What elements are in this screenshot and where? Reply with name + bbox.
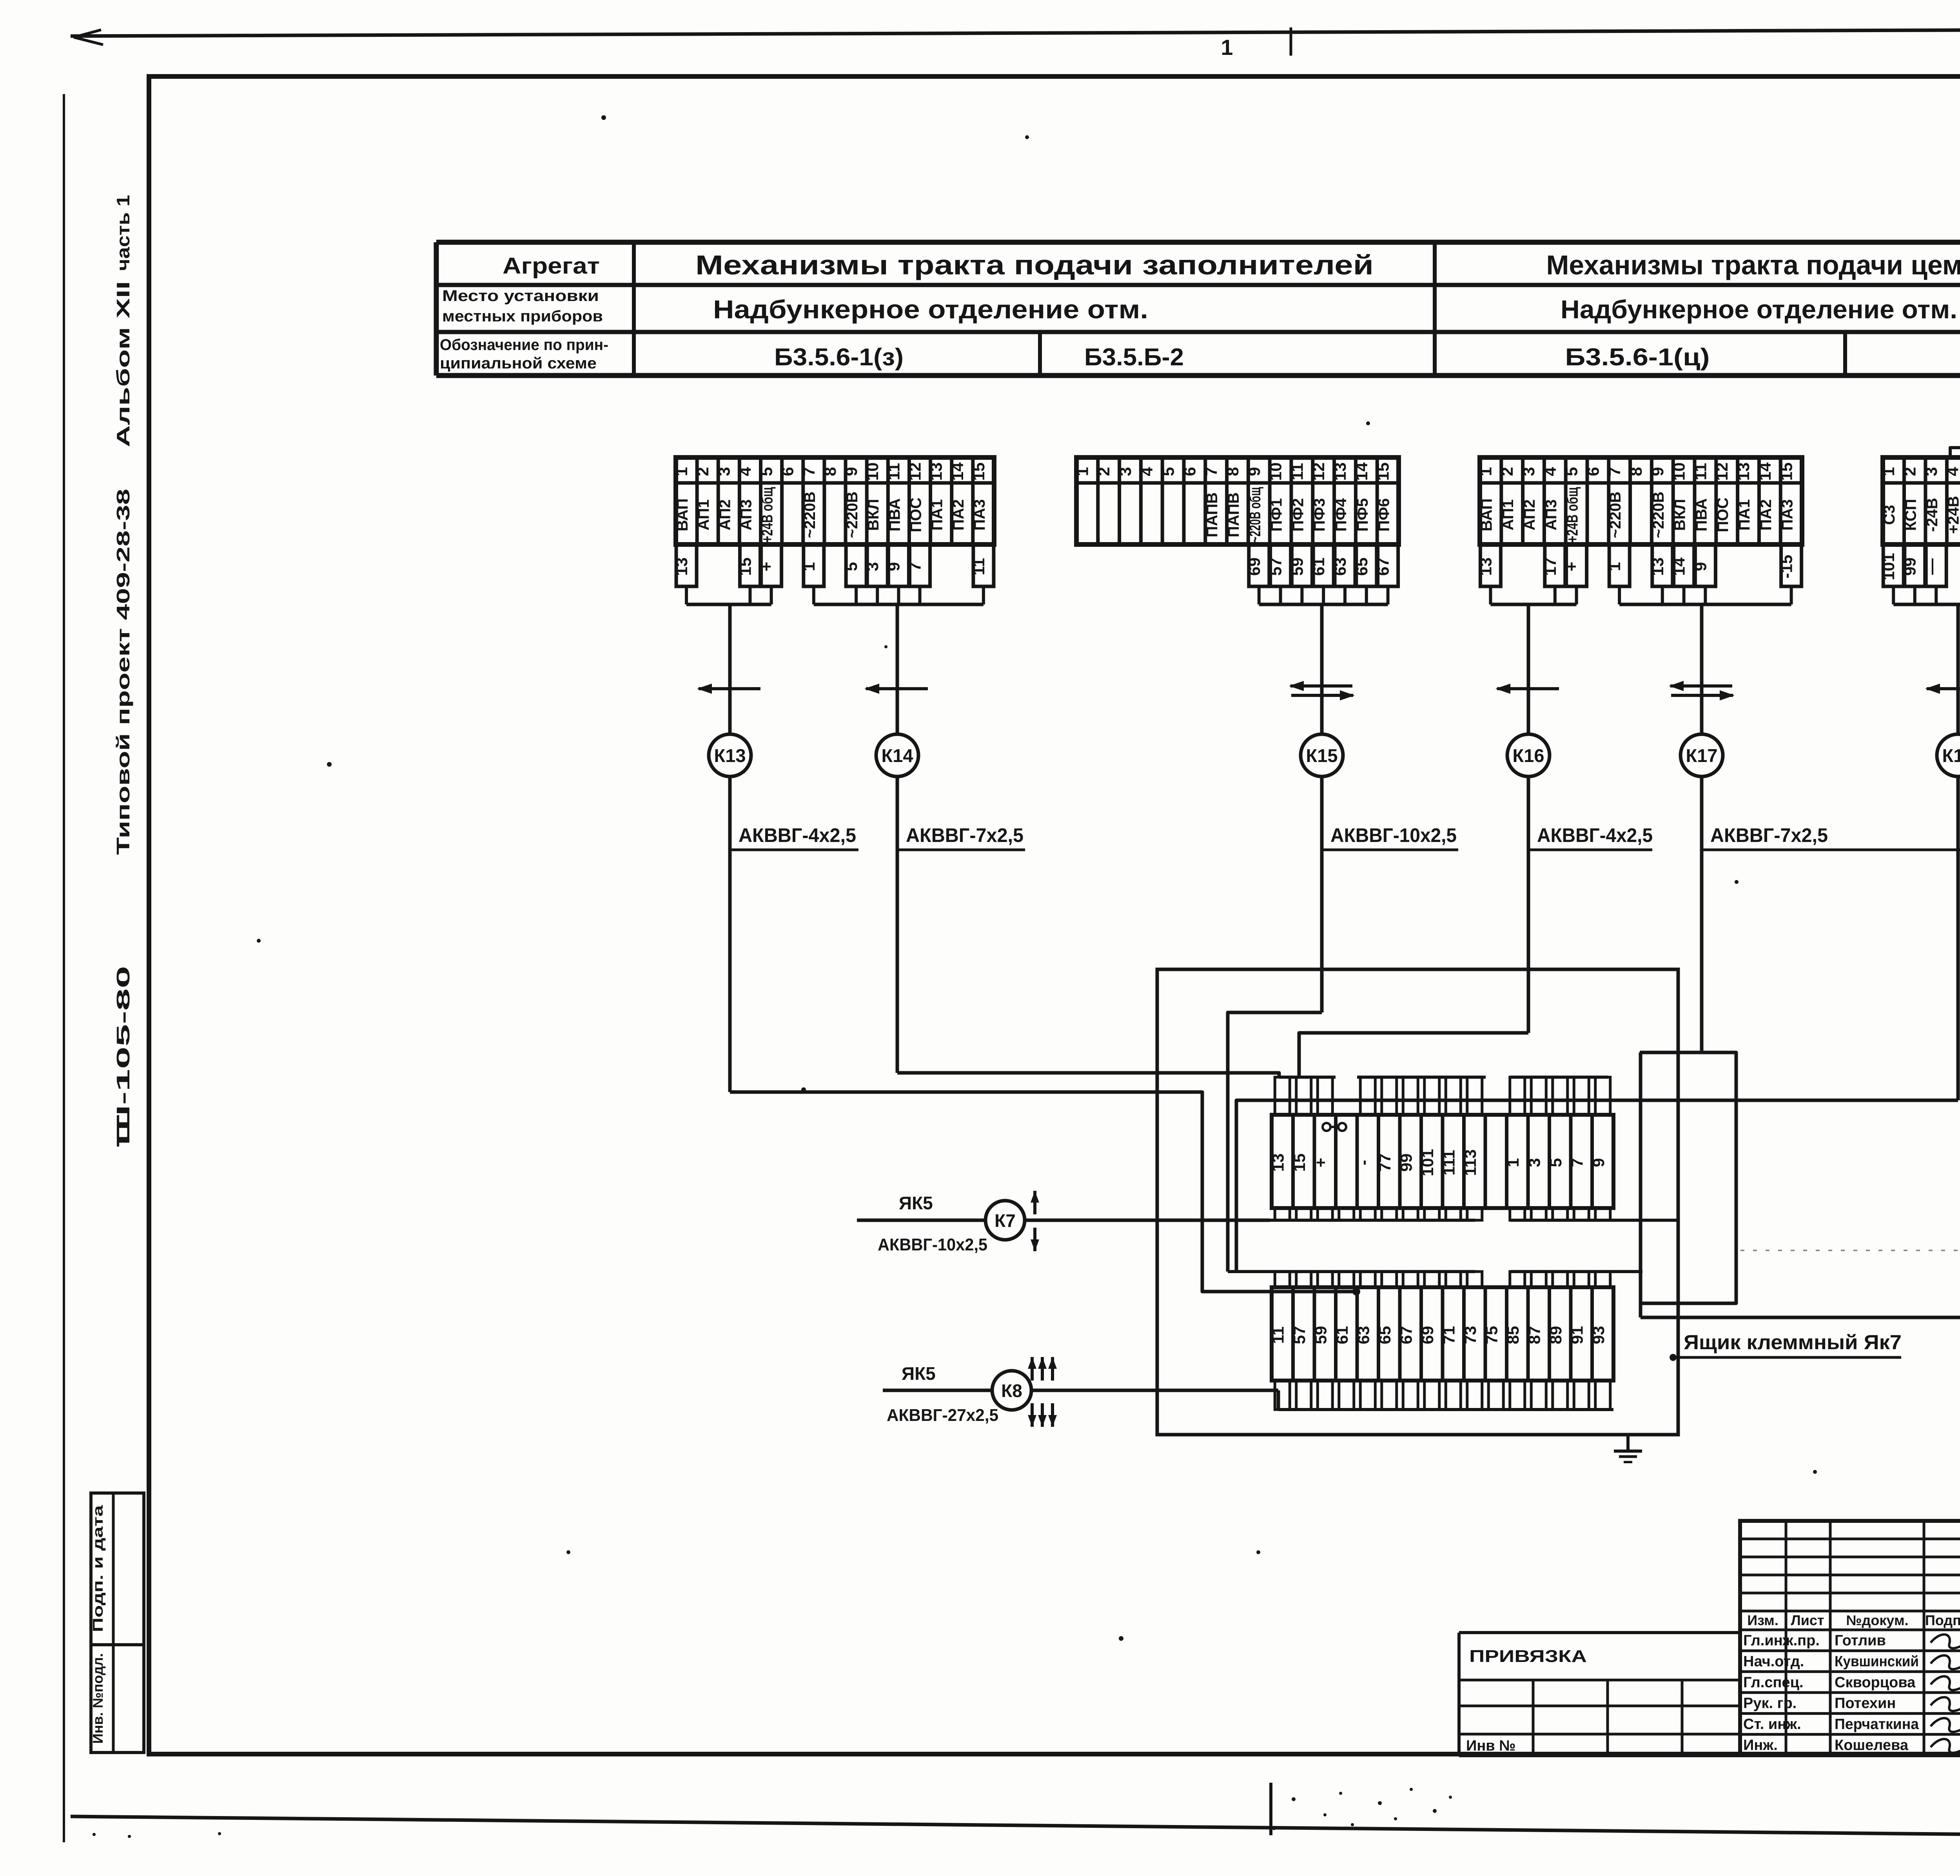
svg-text:Альбом XII: Альбом XII xyxy=(113,281,133,447)
svg-text:К13: К13 xyxy=(714,745,746,766)
svg-text:Перчаткина: Перчаткина xyxy=(1835,1716,1919,1733)
svg-text:+24В общ: +24В общ xyxy=(759,487,776,542)
svg-text:1: 1 xyxy=(1073,467,1091,476)
svg-text:ВКЛ: ВКЛ xyxy=(865,499,882,531)
svg-text:Ящик клеммный Як7: Ящик клеммный Як7 xyxy=(1684,1331,1902,1354)
svg-text:Б3.5.6-1(з): Б3.5.6-1(з) xyxy=(774,344,904,371)
svg-text:К17: К17 xyxy=(1686,745,1718,766)
svg-text:5: 5 xyxy=(1159,467,1178,476)
svg-text:93: 93 xyxy=(1589,1326,1608,1344)
svg-text:12: 12 xyxy=(1309,463,1328,481)
svg-text:~220В: ~220В xyxy=(801,492,818,538)
svg-text:АКВВГ-27х2,5: АКВВГ-27х2,5 xyxy=(887,1406,998,1425)
svg-text:14: 14 xyxy=(948,462,967,481)
svg-text:73: 73 xyxy=(1461,1326,1479,1344)
svg-text:101: 101 xyxy=(1418,1149,1437,1176)
svg-text:59: 59 xyxy=(1288,557,1306,576)
svg-text:АП2: АП2 xyxy=(1521,499,1538,530)
svg-text:Рук. гр.: Рук. гр. xyxy=(1743,1695,1797,1712)
svg-text:ПА2: ПА2 xyxy=(950,499,967,531)
svg-text:Механизмы тракта подачи цемент: Механизмы тракта подачи цемента xyxy=(1546,250,1960,280)
svg-text:Б3.5.Б-2: Б3.5.Б-2 xyxy=(1084,344,1184,371)
svg-text:11: 11 xyxy=(884,463,903,480)
svg-text:Типовой проект 409-28-38: Типовой проект 409-28-38 xyxy=(113,489,133,855)
svg-text:АКВВГ-10х2,5: АКВВГ-10х2,5 xyxy=(878,1235,987,1254)
svg-text:3: 3 xyxy=(1519,467,1538,476)
svg-text:Надбункерное отделение отм.: Надбункерное отделение отм. xyxy=(713,295,1148,324)
svg-text:15: 15 xyxy=(969,463,988,481)
svg-text:местных приборов: местных приборов xyxy=(442,308,603,325)
svg-text:1: 1 xyxy=(1221,35,1233,60)
svg-text:ПОС: ПОС xyxy=(1714,497,1731,532)
svg-text:3: 3 xyxy=(1116,467,1134,476)
svg-text:~220В: ~220В xyxy=(1607,492,1624,538)
svg-text:3: 3 xyxy=(1922,467,1940,476)
svg-text:+: + xyxy=(1311,1158,1330,1168)
svg-text:АКВВГ-10х2,5: АКВВГ-10х2,5 xyxy=(1330,824,1457,846)
svg-text:ПОС: ПОС xyxy=(907,497,924,532)
svg-text:АП2: АП2 xyxy=(716,499,733,530)
svg-text:1: 1 xyxy=(1605,562,1624,571)
svg-text:85: 85 xyxy=(1504,1326,1522,1344)
svg-text:2: 2 xyxy=(693,467,712,476)
svg-text:59: 59 xyxy=(1311,1326,1330,1344)
svg-text:111: 111 xyxy=(1439,1150,1458,1175)
svg-text:Б3.5.6-1(ц): Б3.5.6-1(ц) xyxy=(1565,344,1710,371)
svg-text:10: 10 xyxy=(1670,463,1688,481)
svg-text:63: 63 xyxy=(1354,1326,1372,1344)
svg-text:Потехин: Потехин xyxy=(1835,1695,1896,1712)
svg-text:Обозначение по прин-: Обозначение по прин- xyxy=(440,336,608,354)
svg-text:87: 87 xyxy=(1525,1326,1543,1344)
svg-text:6: 6 xyxy=(779,467,797,476)
svg-text:АКВВГ-4х2,5: АКВВГ-4х2,5 xyxy=(739,824,856,846)
svg-text:ПВА: ПВА xyxy=(886,498,903,532)
svg-text:89: 89 xyxy=(1546,1326,1565,1344)
svg-text:~220В: ~220В xyxy=(1650,492,1667,538)
svg-text:12: 12 xyxy=(1713,463,1731,481)
svg-text:11: 11 xyxy=(969,558,988,575)
svg-text:ПФ6: ПФ6 xyxy=(1376,498,1393,532)
svg-text:14: 14 xyxy=(1670,557,1688,576)
svg-text:К14: К14 xyxy=(882,745,913,766)
svg-text:-: - xyxy=(1354,1160,1372,1165)
svg-text:71: 71 xyxy=(1439,1326,1458,1344)
svg-text:ЯК5: ЯК5 xyxy=(899,1193,933,1213)
svg-text:5: 5 xyxy=(842,562,860,571)
svg-text:~220В: ~220В xyxy=(844,492,861,538)
svg-text:15: 15 xyxy=(736,557,754,576)
svg-text:113: 113 xyxy=(1461,1149,1479,1176)
svg-text:99: 99 xyxy=(1901,557,1919,576)
svg-text:1: 1 xyxy=(672,467,691,476)
svg-text:-24В: -24В xyxy=(1924,498,1941,532)
svg-text:+: + xyxy=(1563,562,1581,572)
svg-text:10: 10 xyxy=(863,463,882,481)
svg-text:11: 11 xyxy=(1691,463,1710,480)
svg-text:13: 13 xyxy=(1331,463,1349,481)
svg-text:ПАПВ: ПАПВ xyxy=(1203,492,1221,537)
svg-text:ПФ5: ПФ5 xyxy=(1354,498,1371,532)
svg-text:2: 2 xyxy=(1498,467,1516,476)
svg-text:15: 15 xyxy=(1374,463,1392,481)
svg-text:1: 1 xyxy=(1504,1158,1522,1167)
svg-text:17: 17 xyxy=(1541,557,1559,576)
svg-text:ПРИВЯЗКА: ПРИВЯЗКА xyxy=(1469,1647,1587,1666)
svg-text:77: 77 xyxy=(1376,1154,1394,1172)
svg-text:АКВВГ-4х2,5: АКВВГ-4х2,5 xyxy=(1537,824,1653,846)
svg-text:~220В общ: ~220В общ xyxy=(1247,487,1264,542)
svg-text:13: 13 xyxy=(1269,1154,1287,1172)
svg-text:Изм.: Изм. xyxy=(1747,1612,1779,1628)
svg-text:57: 57 xyxy=(1267,557,1285,576)
svg-text:7: 7 xyxy=(1568,1158,1586,1167)
svg-text:75: 75 xyxy=(1482,1326,1501,1344)
svg-text:3: 3 xyxy=(1525,1158,1543,1167)
svg-text:ПАПВ: ПАПВ xyxy=(1225,492,1242,537)
svg-text:ПА3: ПА3 xyxy=(971,499,988,531)
svg-text:ПВА: ПВА xyxy=(1693,498,1710,532)
svg-text:2: 2 xyxy=(1901,467,1919,476)
svg-text:АП1: АП1 xyxy=(1499,499,1517,530)
svg-text:АКВВГ-7х2,5: АКВВГ-7х2,5 xyxy=(1710,824,1828,846)
svg-text:14: 14 xyxy=(1352,462,1371,481)
svg-text:57: 57 xyxy=(1290,1326,1308,1344)
svg-text:ПА1: ПА1 xyxy=(929,499,946,531)
svg-text:15: 15 xyxy=(1777,463,1796,481)
svg-text:7: 7 xyxy=(1605,467,1624,476)
svg-text:13: 13 xyxy=(1734,463,1753,481)
svg-text:ВКЛ: ВКЛ xyxy=(1671,499,1689,531)
svg-text:Инв №: Инв № xyxy=(1466,1738,1516,1754)
svg-text:9: 9 xyxy=(842,467,860,476)
svg-text:4: 4 xyxy=(736,467,754,476)
svg-text:Нач.отд.: Нач.отд. xyxy=(1743,1653,1804,1670)
svg-text:13: 13 xyxy=(672,557,691,576)
svg-text:14: 14 xyxy=(1756,462,1774,481)
svg-text:8: 8 xyxy=(1627,467,1645,476)
svg-text:Гл.спец.: Гл.спец. xyxy=(1743,1674,1803,1691)
svg-text:69: 69 xyxy=(1418,1326,1437,1344)
svg-text:4: 4 xyxy=(1541,467,1559,476)
svg-text:АКВВГ-7х2,5: АКВВГ-7х2,5 xyxy=(906,824,1024,846)
svg-text:8: 8 xyxy=(821,467,839,476)
svg-text:1: 1 xyxy=(1476,467,1495,476)
svg-text:Готлив: Готлив xyxy=(1835,1633,1886,1649)
svg-text:Подп. и дата: Подп. и дата xyxy=(90,1505,106,1632)
svg-text:Скворцова: Скворцова xyxy=(1835,1674,1916,1691)
svg-text:69: 69 xyxy=(1245,557,1263,576)
svg-text:5: 5 xyxy=(757,467,776,476)
svg-text:КСП: КСП xyxy=(1902,499,1920,531)
svg-text:ПФ1: ПФ1 xyxy=(1268,498,1285,532)
svg-text:3: 3 xyxy=(863,562,882,571)
svg-text:1: 1 xyxy=(1879,467,1898,476)
svg-text:91: 91 xyxy=(1568,1326,1586,1344)
svg-text:ПФ3: ПФ3 xyxy=(1311,498,1328,532)
svg-text:7: 7 xyxy=(1202,467,1220,476)
svg-text:ПФ4: ПФ4 xyxy=(1332,498,1350,532)
svg-text:Инж.: Инж. xyxy=(1743,1737,1778,1753)
svg-text:ВАП: ВАП xyxy=(674,498,691,531)
svg-text:ПА2: ПА2 xyxy=(1757,499,1775,531)
svg-text:13: 13 xyxy=(1476,557,1495,576)
svg-text:11: 11 xyxy=(1288,463,1306,480)
svg-text:9: 9 xyxy=(1589,1158,1608,1167)
svg-text:3: 3 xyxy=(715,467,733,476)
svg-text:63: 63 xyxy=(1331,557,1349,576)
svg-text:+24В общ: +24В общ xyxy=(1564,487,1581,542)
svg-text:К16: К16 xyxy=(1513,745,1544,766)
svg-text:К15: К15 xyxy=(1306,745,1338,766)
svg-text:7: 7 xyxy=(800,467,818,476)
svg-text:9: 9 xyxy=(1691,562,1710,571)
svg-text:9: 9 xyxy=(1245,467,1263,476)
svg-text:101: 101 xyxy=(1879,553,1898,580)
svg-text:2: 2 xyxy=(1094,467,1113,476)
svg-text:—: — xyxy=(1922,559,1940,575)
svg-text:Агрегат: Агрегат xyxy=(503,253,600,279)
svg-text:13: 13 xyxy=(927,463,946,481)
svg-text:-15: -15 xyxy=(1777,555,1796,579)
svg-text:8: 8 xyxy=(1223,467,1242,476)
svg-text:7: 7 xyxy=(906,562,924,571)
svg-text:4: 4 xyxy=(1138,467,1156,476)
svg-text:6: 6 xyxy=(1180,467,1199,476)
svg-text:5: 5 xyxy=(1563,467,1581,476)
svg-text:61: 61 xyxy=(1309,557,1328,576)
svg-text:Ст. инж.: Ст. инж. xyxy=(1743,1716,1801,1733)
svg-text:99: 99 xyxy=(1397,1154,1415,1172)
svg-text:ПА3: ПА3 xyxy=(1779,499,1796,531)
svg-text:+: + xyxy=(757,562,776,572)
svg-text:АП1: АП1 xyxy=(695,499,712,530)
svg-text:Лист: Лист xyxy=(1791,1612,1824,1628)
svg-text:К18: К18 xyxy=(1942,745,1960,766)
svg-text:К7: К7 xyxy=(995,1210,1016,1231)
svg-text:9: 9 xyxy=(884,562,903,571)
svg-text:ВАП: ВАП xyxy=(1478,498,1495,531)
svg-text:ПФ2: ПФ2 xyxy=(1289,498,1307,532)
svg-text:Надбункерное отделение отм.: Надбункерное отделение отм. xyxy=(1561,295,1957,324)
svg-text:Ш-105-80: Ш-105-80 xyxy=(113,966,133,1145)
svg-text:ципиальной схеме: ципиальной схеме xyxy=(440,355,597,372)
svg-text:часть 1: часть 1 xyxy=(113,195,133,271)
svg-text:65: 65 xyxy=(1376,1326,1394,1344)
svg-text:ЯК5: ЯК5 xyxy=(902,1363,936,1384)
svg-text:Кувшинский: Кувшинский xyxy=(1835,1653,1919,1670)
svg-text:5: 5 xyxy=(1546,1158,1565,1167)
svg-text:АП3: АП3 xyxy=(737,499,755,530)
svg-text:4: 4 xyxy=(1944,467,1960,476)
svg-text:10: 10 xyxy=(1267,463,1285,481)
svg-text:АП3: АП3 xyxy=(1543,499,1560,530)
svg-text:Кошелева: Кошелева xyxy=(1835,1737,1909,1753)
svg-text:№докум.: №докум. xyxy=(1846,1612,1908,1628)
svg-text:15: 15 xyxy=(1290,1154,1308,1172)
svg-text:+24В: +24В xyxy=(1945,496,1960,534)
svg-text:К8: К8 xyxy=(1001,1381,1022,1401)
svg-text:12: 12 xyxy=(906,463,924,481)
svg-text:Подпись: Подпись xyxy=(1925,1612,1960,1628)
svg-text:С3: С3 xyxy=(1881,505,1898,525)
svg-text:Гл.инж.пр.: Гл.инж.пр. xyxy=(1743,1633,1820,1649)
svg-text:67: 67 xyxy=(1374,557,1392,576)
svg-text:9: 9 xyxy=(1648,467,1667,476)
svg-text:Место установки: Место установки xyxy=(442,287,599,305)
svg-text:Инв. №подл.: Инв. №подл. xyxy=(90,1653,106,1744)
svg-text:67: 67 xyxy=(1397,1326,1415,1344)
svg-text:61: 61 xyxy=(1333,1326,1351,1344)
svg-text:ПА1: ПА1 xyxy=(1736,499,1753,531)
svg-text:1: 1 xyxy=(800,562,818,571)
svg-text:11: 11 xyxy=(1269,1326,1287,1344)
svg-text:13: 13 xyxy=(1648,557,1667,576)
svg-text:6: 6 xyxy=(1584,467,1602,476)
svg-text:65: 65 xyxy=(1352,557,1371,576)
svg-text:Механизмы тракта подачи заполн: Механизмы тракта подачи заполнителей xyxy=(695,250,1374,280)
